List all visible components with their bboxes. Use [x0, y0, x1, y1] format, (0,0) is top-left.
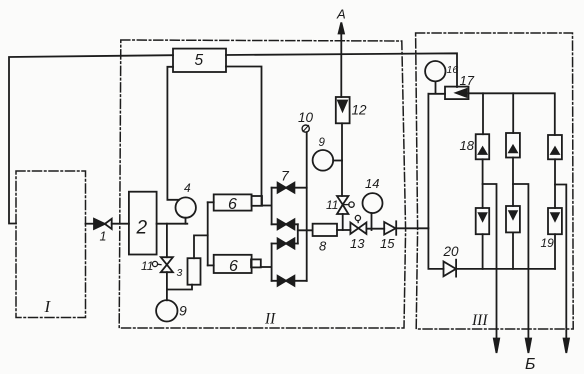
wire gauge 16 stem [435, 81, 437, 93]
svg-text:17: 17 [460, 73, 475, 88]
box B lower [214, 255, 252, 273]
unit III boundary (dash-dot box) [416, 33, 574, 329]
wire bypass c [555, 185, 566, 340]
wire main line box5 to unit III corner down to box 17 [226, 53, 457, 87]
wire box 2 output [157, 223, 188, 225]
svg-text:3: 3 [177, 267, 183, 279]
box 18a [476, 134, 490, 159]
svg-text:II: II [264, 311, 276, 328]
wire left rail unit III down to valve 20 [427, 94, 429, 269]
svg-text:18: 18 [460, 138, 475, 153]
valve 11a (left) [152, 257, 173, 272]
node circle 10 vent [302, 125, 309, 132]
box 19a [476, 208, 490, 234]
box 18c [548, 135, 562, 159]
box B connector square [251, 259, 261, 267]
wire box 6 output [262, 205, 272, 207]
wire left rail of boxes 6 [207, 202, 209, 265]
wire box 12 down to valve 11b [341, 123, 343, 196]
svg-text:16: 16 [447, 64, 459, 76]
box 17 [445, 87, 469, 100]
wire gauge 4 stem [185, 218, 187, 224]
svg-text:2: 2 [136, 218, 148, 239]
gauge circle 16 [425, 61, 445, 81]
valve 7 row3 [272, 239, 298, 249]
wire valve 13 to valve 15 [367, 228, 385, 230]
wire gauge 9 link [333, 160, 342, 162]
wire box 17 left link [428, 93, 445, 95]
svg-text:19: 19 [541, 236, 555, 250]
wire valves 7 right rail rows 2-3 [297, 224, 299, 243]
wire box 19a down to collector [482, 234, 484, 269]
gauge circle 14 [363, 193, 383, 213]
svg-text:A: A [336, 7, 346, 22]
svg-text:6: 6 [229, 258, 238, 275]
valve 13 [350, 215, 366, 234]
wire drop to box 18b [512, 93, 514, 133]
svg-text:11: 11 [326, 198, 338, 212]
svg-text:4: 4 [184, 181, 191, 195]
wire valves 7 left rail upper [271, 188, 273, 225]
wire bypass a [483, 184, 497, 339]
wire box B output [261, 266, 272, 268]
box 19c [548, 208, 562, 234]
unit II boundary (dash-dot box) [119, 40, 405, 328]
box 6 connector square [252, 196, 262, 206]
valve 7 row1 [272, 183, 307, 193]
box 5 [173, 49, 226, 72]
wire line A down to box 12 [340, 26, 342, 97]
svg-text:1: 1 [100, 230, 107, 244]
wire rows 2-3 output to box 8 [298, 229, 313, 231]
wire collector [456, 268, 555, 270]
wire vent line 10 down through rows 1-4 [306, 132, 308, 281]
valve 1 [94, 219, 112, 229]
wire bypass b [513, 184, 528, 339]
wire column b 18 to 19 [512, 158, 514, 207]
arrow down c [564, 339, 569, 354]
svg-text:9: 9 [179, 303, 187, 319]
wire valve 11b stem to main line [342, 214, 344, 230]
valve 15 (check) [384, 221, 396, 235]
wire column c 18 to 19 [554, 159, 556, 208]
svg-text:15: 15 [380, 236, 395, 251]
wire valve 1 to box 2 [112, 223, 129, 225]
wire drop to box 18a [482, 93, 484, 134]
wire box5 bottom-right down to throttle 6 output [226, 67, 262, 206]
box 18b [506, 133, 520, 158]
svg-text:9: 9 [319, 137, 326, 149]
wire box 8 to valve 13 [337, 229, 350, 231]
svg-text:III: III [471, 312, 488, 329]
svg-text:11: 11 [141, 259, 153, 273]
wire feedback top-left from box 5 to unit I [9, 55, 173, 223]
svg-text:5: 5 [195, 52, 204, 69]
wire valves 7 left rail lower [271, 244, 273, 281]
valve 7 row4 [272, 276, 307, 286]
wire valve 15 to unit III [396, 227, 428, 229]
arrow down a [494, 339, 499, 354]
wire column a 18 to 19 [482, 159, 484, 208]
valve 11b (right) [337, 196, 354, 214]
svg-text:14: 14 [365, 176, 379, 191]
svg-text:10: 10 [298, 110, 314, 125]
valve 20 (check) [428, 260, 456, 277]
svg-text:8: 8 [319, 239, 327, 254]
valve 7 row2 [272, 219, 298, 229]
svg-text:6: 6 [228, 196, 237, 213]
arrow down b [526, 339, 531, 354]
box 8 [313, 224, 337, 236]
wire valve 11a down and to box 3 bottom [167, 272, 192, 289]
wire gauge 14 stem [371, 213, 373, 230]
box 3 [188, 258, 201, 285]
gauge circle 4 [176, 197, 196, 217]
arrow A head [339, 23, 344, 34]
svg-text:13: 13 [350, 236, 365, 251]
svg-text:12: 12 [352, 103, 368, 118]
wire box 3 top to distributor left rail [194, 235, 208, 258]
svg-text:Б: Б [525, 356, 535, 373]
wire unit I output to valve 1 [86, 223, 95, 225]
gauge circle 9 top [313, 150, 334, 171]
box 19b [506, 206, 520, 232]
wire stub to box 6 [208, 201, 214, 203]
wire box 19c down to collector [554, 234, 556, 269]
wire gauge 9 stem [166, 290, 168, 301]
svg-text:20: 20 [443, 244, 460, 259]
box 12 [336, 97, 350, 123]
wire box 17 output manifold [469, 93, 555, 135]
gauge circle 9 bottom [156, 300, 177, 321]
svg-text:7: 7 [281, 168, 290, 184]
unit I boundary (dash-dot box) [16, 171, 86, 318]
wire box5 bottom-left down to pressure gauge 4 [167, 67, 178, 200]
box 2 [129, 192, 157, 255]
wire branch down to valve 11a [166, 224, 168, 258]
wire stub to box B [208, 264, 214, 266]
box 6 upper [214, 194, 252, 210]
wire box 19b down to collector [512, 232, 514, 269]
